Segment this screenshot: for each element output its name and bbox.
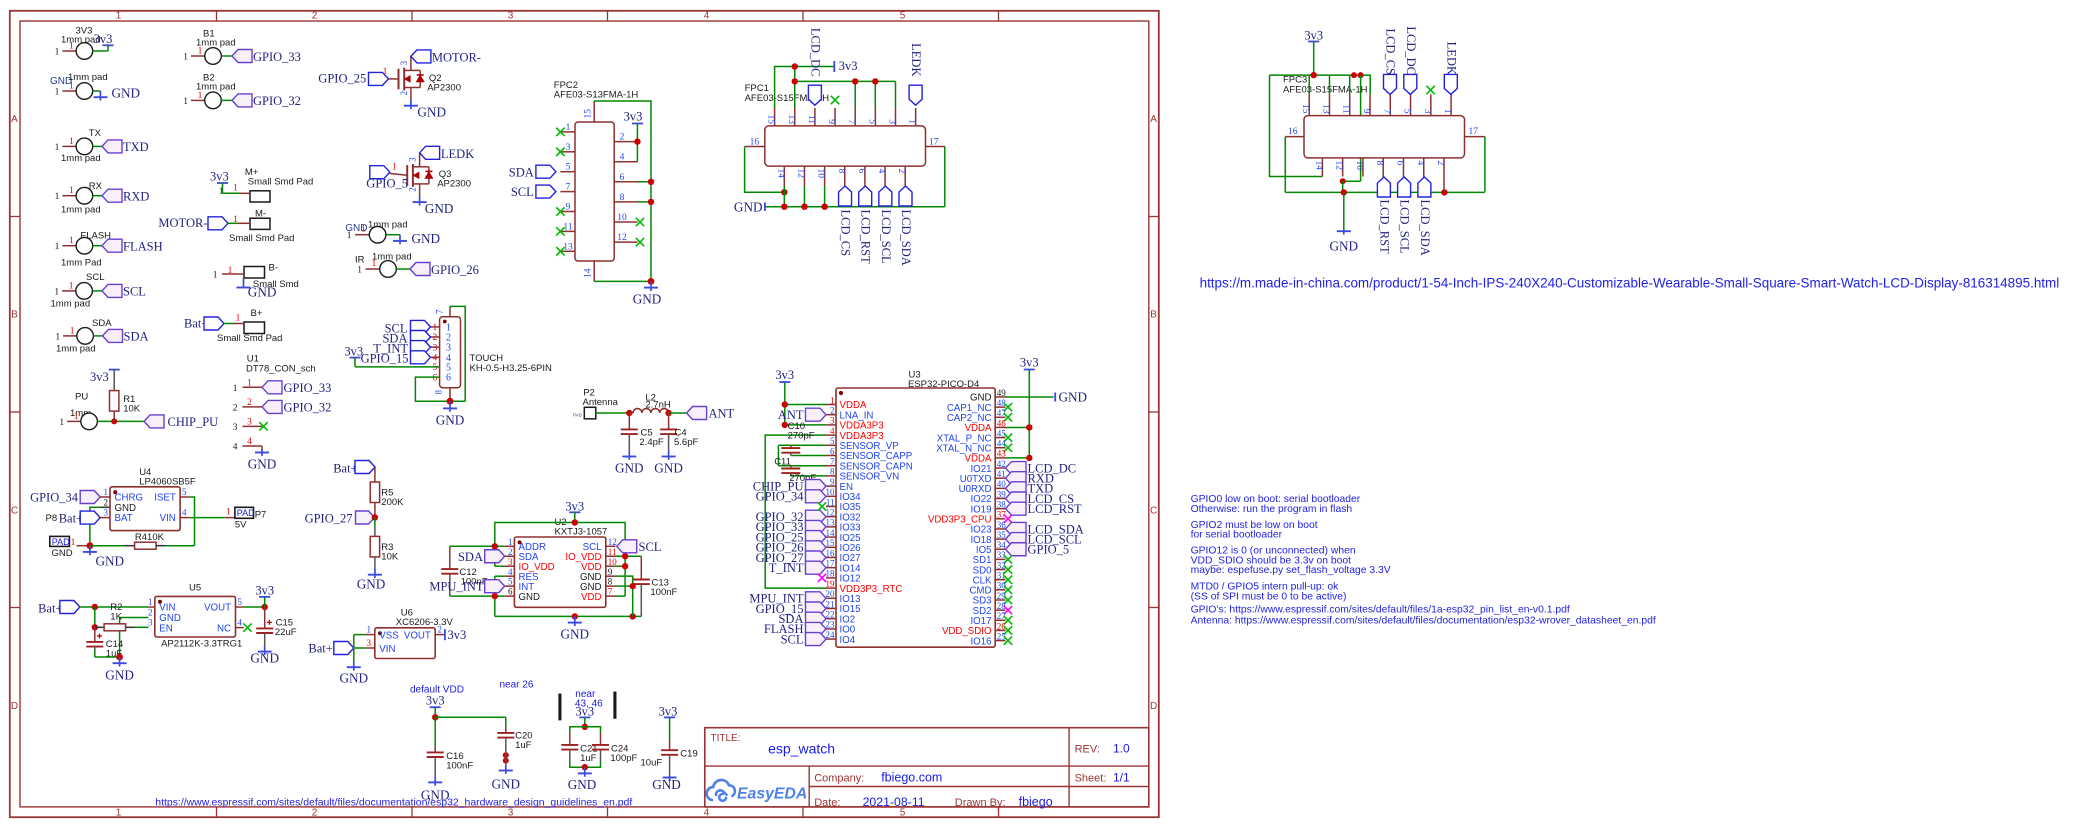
wire [1342, 181, 1344, 192]
U3 pin 21 IO15 [826, 608, 836, 610]
svg-text:2: 2 [1435, 161, 1445, 166]
svg-text:2: 2 [508, 547, 513, 557]
wire 3v3 to U3 VDDA right [1028, 370, 1030, 458]
ground flag GND (U3 pin49) [1054, 393, 1056, 402]
FPC2 pin 13 [560, 250, 575, 252]
net flag ANT (U3 pin 2) [806, 408, 827, 421]
svg-text:DT78_CON_sch: DT78_CON_sch [246, 364, 316, 375]
junction [111, 418, 117, 424]
wire [636, 142, 638, 162]
capacitor C12 100nF [449, 546, 451, 569]
svg-text:KH-0.5-H3.25-6PIN: KH-0.5-H3.25-6PIN [470, 363, 553, 374]
svg-text:2021-08-11: 2021-08-11 [863, 795, 925, 809]
svg-text:12: 12 [608, 537, 617, 547]
svg-text:8: 8 [836, 169, 846, 174]
wire [637, 201, 651, 203]
svg-text:LCD_SDA: LCD_SDA [1418, 200, 1432, 256]
svg-text:LCD_RST: LCD_RST [1377, 200, 1391, 255]
U3 pin 17 IO14 [826, 567, 836, 569]
capacitor C11 270pF [790, 466, 792, 469]
svg-text:13: 13 [786, 115, 796, 125]
no-connect X (U3 pin 44) [1004, 444, 1012, 452]
net flag FLASH (U3 pin 23) [806, 622, 827, 635]
U3 pin 32 SD0 [995, 569, 1005, 571]
svg-text:7: 7 [566, 183, 571, 193]
svg-text:1: 1 [71, 538, 76, 548]
svg-text:GND: GND [52, 548, 73, 559]
FPC3 pin 3 [1430, 94, 1432, 115]
power flag 3v3 (FPC1) [833, 61, 835, 72]
svg-text:1: 1 [55, 242, 60, 252]
wire U3 pin49 GND [1006, 396, 1054, 398]
svg-text:3v3: 3v3 [90, 370, 109, 384]
svg-text:3: 3 [508, 807, 514, 818]
svg-text:GND: GND [412, 231, 441, 246]
svg-text:5: 5 [1402, 109, 1412, 114]
svg-text:fbiego.com: fbiego.com [881, 770, 942, 784]
U2 pin 6 GND [505, 595, 515, 597]
FPC3 pin 6 [1402, 158, 1404, 177]
no-connect X (U3 pin 26) [1004, 626, 1012, 634]
svg-text:1: 1 [183, 53, 188, 63]
comment bars (near 43,46) [559, 694, 562, 720]
svg-text:Small Smd Pad: Small Smd Pad [217, 333, 282, 344]
wire [854, 81, 856, 108]
U3 pin 48 CAP1_NC [995, 406, 1005, 408]
svg-text:1: 1 [508, 537, 513, 547]
svg-text:XC6206-3.3V: XC6206-3.3V [396, 617, 454, 628]
svg-text:MOTOR-: MOTOR- [432, 51, 481, 65]
svg-text:2: 2 [830, 406, 835, 416]
FPC1 pin 9 [834, 108, 836, 126]
svg-text:SCL: SCL [86, 272, 104, 283]
svg-text:T_INT: T_INT [769, 561, 804, 575]
svg-text:13: 13 [826, 518, 836, 528]
svg-text:17: 17 [1469, 127, 1479, 137]
svg-text:EasyEDA: EasyEDA [737, 786, 807, 803]
svg-text:1: 1 [55, 48, 60, 58]
svg-text:1uF: 1uF [580, 753, 597, 764]
svg-text:C19: C19 [680, 749, 697, 760]
svg-text:GND: GND [250, 650, 279, 665]
wire U2 pin9 [616, 576, 633, 616]
svg-text:SCL: SCL [639, 540, 662, 554]
no-connect X (U5 pin4) [243, 623, 251, 631]
svg-text:1: 1 [226, 508, 231, 518]
FPC3 pin 7 [1389, 94, 1391, 115]
no-connect X (U3 pin11 IO35) [818, 502, 826, 510]
svg-text:1: 1 [433, 323, 438, 333]
wire [777, 445, 779, 465]
svg-text:1: 1 [59, 418, 64, 428]
svg-text:LCD_DC: LCD_DC [1404, 26, 1418, 75]
wire [166, 545, 194, 547]
svg-text:15: 15 [826, 538, 836, 548]
U3 pin 3 VDDA3P3 [826, 424, 836, 426]
svg-text:1mm pad: 1mm pad [51, 299, 91, 310]
svg-text:1: 1 [347, 231, 352, 241]
svg-text:6: 6 [830, 446, 835, 456]
svg-text:SCL: SCL [781, 632, 804, 646]
no-connect X (FPC2 pin12) [636, 238, 644, 246]
FPC3 pin 15 [1308, 94, 1310, 115]
U3 pin 19 VDD3P3_RTC [826, 587, 836, 589]
svg-text:GND: GND [425, 201, 454, 216]
svg-text:AFE03-S13FMA-1H: AFE03-S13FMA-1H [554, 89, 639, 100]
svg-text:Bat+: Bat+ [38, 602, 62, 616]
FPC1 pin 10 [824, 166, 826, 186]
FPC3 pin 5 [1410, 94, 1412, 115]
svg-text:16: 16 [1288, 127, 1298, 137]
net flag LCD_CS (FPC3 pin7) [1384, 74, 1397, 94]
net flag GPIO_34 (U4 pin1) [80, 491, 100, 504]
junction [503, 752, 509, 758]
wire [874, 81, 876, 108]
wire U2 pin11 [616, 555, 642, 557]
wire [93, 335, 102, 337]
svg-text:1: 1 [69, 82, 74, 92]
svg-text:1mm pad: 1mm pad [68, 72, 108, 83]
junction [630, 613, 636, 619]
net flag GPIO_27 (U3 pin 16) [806, 551, 827, 564]
ground symbol (C19) [669, 765, 671, 778]
svg-text:2: 2 [312, 807, 318, 818]
svg-text:3: 3 [233, 423, 238, 433]
wire pin17 loop [1484, 137, 1486, 192]
FPC3 pin 12 [1342, 158, 1344, 177]
FPC3 pin 13 [1328, 94, 1330, 115]
net flag GPIO_26 (IR) [410, 263, 430, 276]
svg-text:10: 10 [617, 213, 627, 223]
junction [572, 519, 578, 525]
svg-text:LCD_DC: LCD_DC [808, 28, 822, 77]
no-connect X (U3 pin 48) [1004, 403, 1012, 411]
svg-text:2: 2 [399, 91, 409, 96]
ground symbol (TOUCH) [449, 401, 451, 408]
junction [1311, 72, 1317, 78]
svg-text:4: 4 [238, 618, 243, 628]
svg-text:14: 14 [826, 528, 836, 538]
wire U3 pin8 [791, 475, 826, 477]
svg-text:VIN: VIN [160, 513, 176, 524]
svg-text:11: 11 [1341, 104, 1351, 113]
svg-text:4: 4 [830, 426, 835, 436]
svg-text:A: A [11, 114, 18, 125]
svg-text:12: 12 [1334, 161, 1344, 171]
U2 pin 1 ADDR [505, 545, 515, 547]
svg-text:1: 1 [183, 97, 188, 107]
FPC1 pin 4 [884, 166, 886, 186]
svg-text:10K: 10K [123, 404, 141, 415]
ground symbol (R3) [374, 569, 376, 575]
U2 pin 10 VDD [606, 565, 616, 567]
FPC2 pin 2 [614, 141, 637, 143]
junction [372, 514, 378, 520]
U3 pin 18 IO12 [826, 577, 836, 579]
svg-text:34: 34 [997, 540, 1007, 550]
svg-text:4: 4 [1415, 161, 1425, 166]
svg-text:Antenna: https://www.espressif: Antenna: https://www.espressif.com/sites… [1191, 616, 1656, 627]
net flag RXD (U3 pin 41) [1006, 472, 1027, 485]
svg-text:14: 14 [775, 169, 785, 179]
svg-text:11: 11 [608, 547, 617, 557]
svg-text:GND: GND [1330, 239, 1359, 254]
ground symbol (Q3 source) [419, 196, 421, 202]
U3 pin 49 GND [995, 396, 1005, 398]
svg-text:1mm Pad: 1mm Pad [61, 258, 102, 269]
svg-text:GND: GND [519, 592, 541, 603]
svg-text:GPIO's: https://www.espressif.: GPIO's: https://www.espressif.com/sites/… [1191, 605, 1570, 616]
svg-text:3v3: 3v3 [344, 345, 363, 359]
U6 pin2 VOUT [435, 634, 445, 636]
wire hidden vertical to pin10 [1360, 75, 1362, 181]
FPC1 pin 5 [874, 108, 876, 126]
net flag ANT (L2) [687, 407, 707, 420]
net flag LCD_SCL (FPC3 pin6) [1398, 177, 1411, 197]
svg-text:6: 6 [620, 173, 625, 183]
net flag GPIO_32 (B2) [232, 94, 252, 107]
ground symbol (C15) [264, 645, 266, 651]
FPC1 pin 6 [864, 166, 866, 186]
U5 body [155, 596, 236, 637]
FPC3 pin 14 [1321, 158, 1323, 177]
wire U3 pin7 [778, 465, 826, 467]
svg-text:1: 1 [198, 47, 203, 57]
svg-text:near 26: near 26 [500, 679, 534, 690]
junction [648, 278, 655, 285]
svg-text:1mm pad: 1mm pad [61, 205, 101, 216]
U3 pin 42 IO21 [995, 467, 1005, 469]
svg-text:U5: U5 [189, 583, 201, 594]
wire [94, 651, 96, 658]
transistor Q2 AP2300 [398, 69, 400, 90]
svg-text:ANT: ANT [778, 408, 804, 422]
ground symbol (FPC2) [650, 281, 652, 287]
U3 pin 9 EN [826, 485, 836, 487]
svg-text:GPIO_32: GPIO_32 [284, 401, 332, 415]
U3 pin 27 IO17 [995, 619, 1005, 621]
svg-text:LCD_SCL: LCD_SCL [879, 210, 893, 264]
FPC2 body [575, 122, 614, 261]
U3 pin 37 VDD3P3_CPU [995, 518, 1005, 520]
svg-text:3: 3 [1422, 109, 1432, 114]
junction [634, 138, 640, 144]
wire [92, 290, 102, 292]
ground symbol (pad GND) [99, 91, 101, 97]
svg-text:5: 5 [566, 163, 571, 173]
svg-text:40: 40 [997, 479, 1007, 489]
svg-text:GND: GND [568, 777, 597, 792]
svg-text:10K: 10K [381, 552, 399, 563]
svg-text:BAT: BAT [115, 513, 133, 524]
svg-text:46: 46 [997, 418, 1007, 428]
no-connect X magenta (U3 pin 28) [1004, 606, 1012, 614]
svg-text:GND: GND [340, 671, 369, 686]
svg-text:5: 5 [433, 363, 438, 373]
svg-text:GPIO_5: GPIO_5 [1028, 543, 1070, 557]
U3 pin 11 IO35 [826, 506, 836, 508]
svg-text:Sheet:: Sheet: [1075, 772, 1107, 784]
U3 body [836, 388, 995, 647]
svg-text:PU: PU [75, 392, 88, 403]
svg-text:10: 10 [608, 557, 618, 567]
svg-text:2: 2 [312, 11, 318, 22]
svg-text:TX: TX [89, 128, 102, 139]
junction [781, 189, 787, 195]
svg-text:D: D [11, 701, 18, 712]
power flag 3v3 (U6 VOUT) [444, 629, 446, 640]
svg-text:4: 4 [433, 354, 438, 364]
svg-text:C: C [1150, 505, 1157, 516]
junction [582, 764, 588, 770]
svg-text:9: 9 [826, 119, 836, 124]
net flag LEDK (FPC1 pin1) [909, 85, 922, 105]
svg-text:fbiego: fbiego [1019, 795, 1053, 809]
net flag LCD_CS (U3 pin 39) [1006, 492, 1027, 505]
FPC1 pin 8 [844, 166, 846, 186]
wire [221, 55, 232, 57]
wire pin13 vertical [794, 67, 796, 109]
junction [626, 410, 632, 416]
svg-text:1: 1 [55, 88, 60, 98]
junction [792, 63, 798, 69]
wire [93, 145, 102, 147]
wire [450, 306, 465, 401]
svg-text:B-: B- [269, 263, 279, 274]
ground symbol (C16) [434, 776, 436, 782]
svg-text:3v3: 3v3 [624, 110, 643, 124]
svg-text:3: 3 [887, 119, 897, 124]
svg-text:1: 1 [70, 326, 75, 336]
no-connect X (FPC3 pin3) [1426, 86, 1434, 94]
resistor R5 200K [374, 467, 376, 482]
net flag LCD_SDA (FPC1 pin2) [899, 186, 912, 206]
FPC2 pin 11 [560, 230, 575, 232]
capacitor C10 270pF [790, 445, 792, 448]
svg-text:7: 7 [830, 457, 835, 467]
svg-text:3v3: 3v3 [255, 584, 274, 598]
svg-text:16: 16 [826, 548, 836, 558]
wire GND rail U4 [90, 545, 125, 547]
svg-text:24: 24 [826, 630, 836, 640]
U3 pin 20 IO13 [826, 597, 836, 599]
net flag LCD_DC (FPC3 pin5) [1404, 74, 1417, 94]
FPC2 pin 12 [614, 241, 637, 243]
svg-text:10uF: 10uF [641, 758, 663, 769]
svg-text:VOUT: VOUT [204, 603, 231, 614]
svg-text:RXD: RXD [123, 189, 149, 203]
wire U3 pin3 [785, 424, 826, 426]
U3 pin 43 VDDA [995, 457, 1005, 459]
svg-text:1: 1 [69, 42, 74, 52]
capacitor C15 22uF [264, 607, 266, 616]
svg-text:3: 3 [433, 343, 438, 353]
svg-text:1: 1 [383, 66, 388, 76]
wire [93, 90, 101, 92]
svg-text:GND: GND [357, 577, 386, 592]
svg-text:11: 11 [826, 497, 835, 507]
svg-text:8: 8 [434, 390, 444, 395]
net flag GPIO_33 (U3 pin 13) [806, 520, 827, 533]
svg-text:https://www.espressif.com/site: https://www.espressif.com/sites/default/… [155, 798, 632, 809]
net flag LCD_CS (FPC1 pin8) [839, 186, 852, 206]
svg-text:2: 2 [433, 333, 438, 343]
svg-text:3: 3 [399, 60, 409, 65]
svg-text:1: 1 [69, 137, 74, 147]
no-connect X (FPC1 pin9) [831, 96, 839, 104]
net flag LCD_SDA (FPC3 pin4) [1418, 177, 1431, 197]
net flag GPIO_32 (U3 pin 12) [806, 510, 827, 523]
svg-text:Company:: Company: [814, 772, 864, 784]
svg-text:1: 1 [116, 11, 122, 22]
net flag SDA (U3 pin 22) [806, 612, 827, 625]
svg-text:GPIO_15: GPIO_15 [361, 351, 409, 365]
svg-text:1: 1 [372, 259, 377, 269]
svg-text:ANT: ANT [709, 407, 735, 421]
svg-text:1: 1 [392, 162, 397, 172]
U3 pin 13 IO33 [826, 526, 836, 528]
FPC2 pin 4 [614, 161, 637, 163]
ground symbol (U6) [353, 661, 355, 667]
svg-text:1uF: 1uF [515, 740, 532, 751]
svg-text:1: 1 [233, 184, 238, 194]
net flag LEDK (Q3 drain) [420, 146, 440, 159]
wire U4 pin5 ISET loop [190, 497, 194, 546]
U6 body [375, 628, 435, 659]
U3 pin 7 SENSOR_CAPN [826, 465, 836, 467]
no-connect X (FPC2 pin10) [636, 218, 644, 226]
no-connect X (U3 pin 45) [1004, 433, 1012, 441]
svg-text:12: 12 [795, 169, 805, 179]
FPC3 pin 11 [1349, 94, 1351, 115]
FPC2 pin 3 [560, 151, 575, 153]
ground flag GND (FPC1) [764, 203, 766, 212]
svg-text:38: 38 [997, 499, 1007, 509]
net flag GPIO_5 (U3 pin 34) [1006, 543, 1027, 556]
wire [136, 626, 149, 628]
connector TOUCH KH-0.5-H3.25-6PIN [440, 317, 461, 388]
svg-text:NC: NC [217, 623, 231, 634]
svg-text:5: 5 [182, 487, 187, 497]
wire FPC3 3v3 rail [1270, 75, 1371, 94]
no-connect X (U3 pin 32) [1004, 565, 1012, 573]
svg-text:3v3: 3v3 [1020, 356, 1039, 370]
svg-text:PAD: PAD [52, 537, 70, 547]
svg-text:GND: GND [248, 457, 277, 472]
svg-text:4: 4 [704, 11, 710, 22]
wire [435, 716, 506, 718]
svg-text:1: 1 [55, 192, 60, 202]
U3 pin 45 XTAL_P_NC [995, 437, 1005, 439]
U3 pin 15 IO26 [826, 546, 836, 548]
svg-text:35: 35 [997, 530, 1007, 540]
FPC1 pin 15 [774, 108, 776, 126]
svg-text:AP2300: AP2300 [437, 179, 471, 190]
net flag CHIP_PU [144, 415, 164, 428]
FPC2 pin 1 [560, 131, 575, 133]
U3 pin 4 VDDA3P3 [826, 434, 836, 436]
svg-text:7: 7 [846, 119, 856, 124]
svg-text:GPIO_32: GPIO_32 [253, 94, 301, 108]
wire U3 pin5 sensor [778, 444, 826, 446]
net flag LCD_DC (U3 pin 42) [1006, 462, 1027, 475]
FPC1 body [765, 126, 926, 166]
svg-text:https://m.made-in-china.com/pr: https://m.made-in-china.com/product/1-54… [1200, 276, 2060, 291]
ground symbol (Q2 source) [410, 100, 412, 106]
wire [93, 195, 102, 197]
ground symbol (U2) [574, 616, 576, 622]
svg-text:B: B [11, 310, 18, 321]
